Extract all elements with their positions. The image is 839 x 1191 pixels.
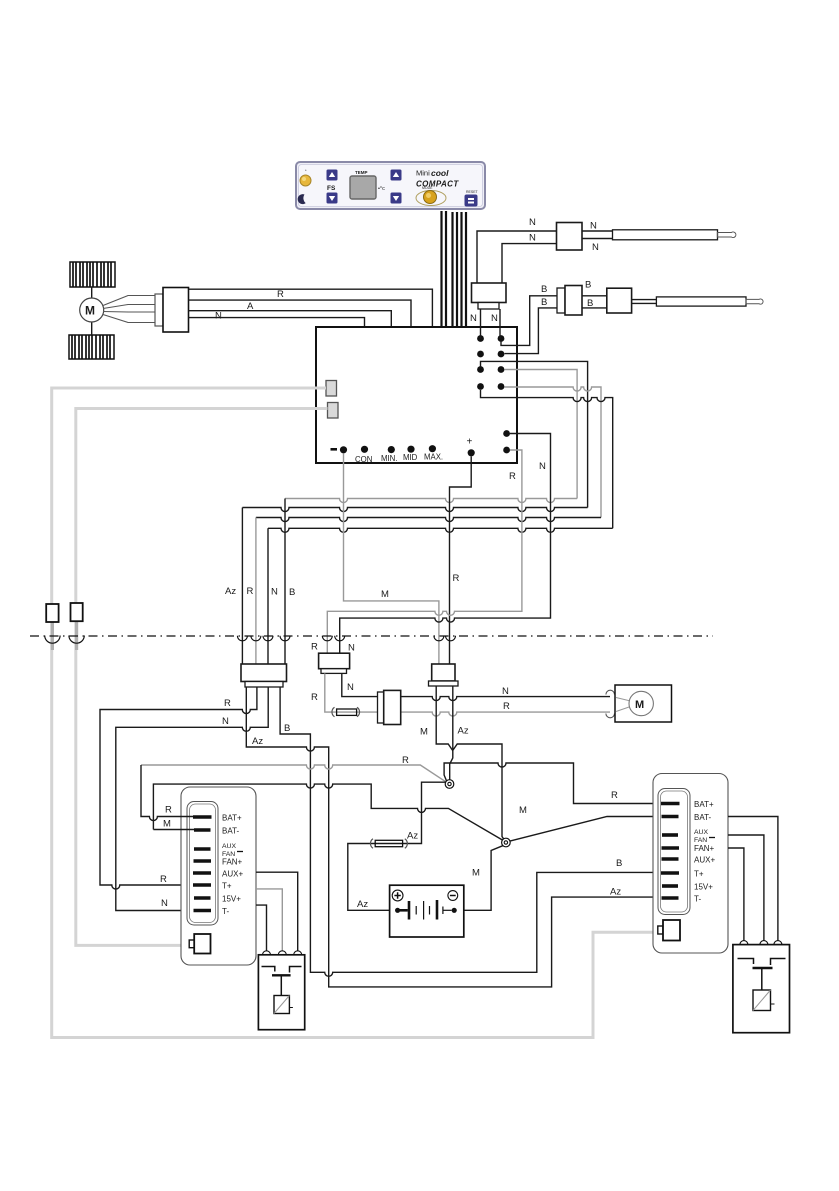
right block plug icon bbox=[658, 920, 680, 941]
svg-text:Az: Az bbox=[225, 586, 236, 597]
partition grommet left 1 bbox=[45, 636, 60, 644]
svg-text:N: N bbox=[347, 682, 354, 693]
control board A1 bbox=[316, 327, 517, 463]
svg-text:MAX.: MAX. bbox=[424, 453, 443, 462]
fan motor lead wires bbox=[103, 296, 155, 323]
bus row 3 bbox=[256, 518, 601, 522]
wire board row3R to bus row1 (gray) bbox=[504, 370, 577, 499]
svg-text:R: R bbox=[509, 471, 516, 482]
relay K1 coil bbox=[274, 996, 293, 1014]
wire cable from panel to board (6 conductors) bbox=[442, 211, 467, 327]
svg-text:Az: Az bbox=[357, 899, 368, 910]
wire N sensor lower bbox=[502, 244, 557, 283]
panel power LED button bbox=[300, 168, 311, 186]
svg-text:FAN+: FAN+ bbox=[694, 844, 715, 853]
connector X9 (mid M Az) bbox=[429, 664, 459, 686]
svg-text:N: N bbox=[529, 233, 536, 244]
svg-text:B: B bbox=[585, 280, 591, 291]
svg-text:CON: CON bbox=[355, 455, 372, 464]
svg-text:N: N bbox=[271, 587, 278, 598]
wire N fan to board MIN bbox=[189, 311, 392, 446]
junction J2 (stud) bbox=[502, 838, 511, 847]
gray frame wire 1 (board socket1 to right plug) bbox=[52, 388, 658, 1038]
wire Az drop to bulkhead bbox=[241, 508, 243, 665]
relay K1 box bbox=[258, 955, 304, 1030]
svg-text:MIN.: MIN. bbox=[381, 454, 397, 463]
svg-text:15V+: 15V+ bbox=[222, 895, 241, 904]
svg-text:N: N bbox=[529, 217, 536, 228]
battery cell symbol bbox=[395, 900, 457, 920]
bus row 2 bbox=[242, 508, 587, 512]
condenser fan motor M2 box bbox=[615, 685, 672, 722]
left block labels bbox=[222, 814, 243, 917]
svg-text:BAT+: BAT+ bbox=[694, 800, 714, 809]
left block plug icon bbox=[189, 934, 210, 954]
label minus bbox=[331, 448, 338, 451]
svg-text:AUX: AUX bbox=[694, 829, 708, 836]
svg-text:M: M bbox=[163, 819, 171, 830]
svg-text:R: R bbox=[503, 701, 510, 712]
svg-text:N: N bbox=[590, 221, 597, 232]
wire Az from X9 to junction J1 bbox=[450, 686, 453, 780]
relay K1 contact symbol bbox=[262, 967, 302, 996]
probe N tail loop bbox=[717, 232, 735, 238]
evaporator fan motor M1 bbox=[80, 298, 104, 322]
bulkhead connector 2 bbox=[71, 603, 83, 621]
svg-text:R: R bbox=[247, 586, 254, 597]
board terminal MIN dot bbox=[388, 446, 395, 453]
svg-text:TEMP: TEMP bbox=[355, 170, 368, 175]
wire board Rout (gray) to compressor R bbox=[327, 450, 522, 653]
right block terminal bars bbox=[661, 804, 680, 899]
svg-text:Az: Az bbox=[252, 736, 263, 747]
temperature probe B2 (B) bbox=[656, 297, 746, 306]
svg-text:N: N bbox=[539, 461, 546, 472]
svg-text:M: M bbox=[381, 589, 389, 600]
wire right block FAN+ to relay K2 bbox=[728, 848, 744, 941]
partition grommet Az mid bbox=[446, 636, 456, 641]
wire board row4R to bus row3 (gray) bbox=[504, 387, 601, 518]
fan motor shaft bbox=[91, 287, 93, 335]
svg-text:R: R bbox=[311, 642, 318, 653]
connector X3 (to board, N N) bbox=[472, 283, 507, 309]
battery plus symbol bbox=[392, 890, 403, 901]
partition grommet M mid bbox=[434, 636, 444, 641]
wire board Nout to compressor N bbox=[340, 434, 551, 654]
svg-text:15V+: 15V+ bbox=[694, 883, 713, 892]
wires X5 to probe bbox=[632, 300, 657, 304]
svg-text:N: N bbox=[222, 716, 229, 727]
wire minus terminal to M drop (gray) bbox=[344, 453, 439, 664]
svg-text:R: R bbox=[160, 874, 167, 885]
connector X7 (4-pole, condenser side) bbox=[241, 664, 287, 687]
partition grommet B bbox=[280, 636, 290, 641]
svg-text:B: B bbox=[289, 587, 295, 598]
panel temp down button bbox=[391, 193, 402, 204]
svg-text:M: M bbox=[85, 304, 95, 318]
wire fan to board CON bbox=[189, 318, 365, 446]
wire R gray to junction J1 bbox=[141, 765, 446, 782]
svg-text:BAT-: BAT- bbox=[222, 827, 240, 836]
svg-text:M: M bbox=[420, 727, 428, 738]
panel Mini cool logo bbox=[416, 168, 449, 178]
svg-text:N: N bbox=[470, 313, 477, 324]
relay K1 hooks bbox=[263, 951, 302, 955]
left terminal block (control unit) bbox=[181, 787, 256, 965]
svg-text:R: R bbox=[453, 573, 460, 584]
svg-text:FAN: FAN bbox=[694, 837, 707, 844]
board terminal MAX dot bbox=[429, 445, 436, 452]
wire Az connector X7 to right block T- bbox=[246, 687, 661, 987]
svg-text:R: R bbox=[611, 790, 618, 801]
connector X2 (N sensor) bbox=[557, 223, 583, 251]
wire M from X9 to junction J2 bbox=[436, 686, 505, 841]
fan connector main shell X1 bbox=[163, 288, 189, 333]
board right-edge dot upper (N out) bbox=[503, 430, 510, 437]
right block labels bbox=[694, 800, 715, 904]
wire left block lower to relay K1 bbox=[256, 905, 267, 950]
board terminal plus dot bbox=[468, 449, 475, 456]
relay K2 coil bbox=[753, 990, 775, 1011]
fuse F2 bbox=[370, 839, 407, 849]
bulkhead connector stub 1 bbox=[51, 620, 54, 650]
evaporator fan upper heat-exchanger (hatched) bbox=[70, 262, 115, 287]
probe B tail loop bbox=[746, 299, 763, 304]
svg-text:R: R bbox=[311, 692, 318, 703]
M2 internal leads bbox=[616, 698, 631, 712]
svg-text:Az: Az bbox=[458, 726, 469, 737]
wires connector to probe N bbox=[582, 231, 613, 239]
svg-text:cool: cool bbox=[431, 168, 449, 178]
wire R connector X7 to left block T+ bbox=[100, 687, 257, 889]
svg-text:FS: FS bbox=[327, 185, 336, 192]
svg-text:M: M bbox=[519, 805, 527, 816]
svg-text:AUX+: AUX+ bbox=[222, 870, 243, 879]
battery G1 bbox=[390, 885, 464, 937]
wire N connector X7 to left block T- bbox=[116, 687, 268, 911]
wire M to left block BAT- bbox=[153, 829, 194, 831]
svg-text:N: N bbox=[502, 686, 509, 697]
partition grommet R compressor bbox=[322, 636, 332, 641]
svg-text:T+: T+ bbox=[694, 870, 704, 879]
junction J1 (stud) bbox=[445, 780, 454, 789]
wire board row3L to bus row2 bbox=[481, 361, 588, 507]
svg-text:T-: T- bbox=[222, 907, 229, 916]
svg-text:R: R bbox=[277, 289, 284, 300]
wire M left block BAT- run bbox=[153, 784, 502, 840]
evaporator fan lower heat-exchanger (hatched) bbox=[69, 335, 114, 359]
wire R gray to left block BAT+ bbox=[141, 765, 193, 821]
partition grommet Az bbox=[237, 636, 247, 641]
svg-text:BAT-: BAT- bbox=[694, 813, 712, 822]
svg-text:+: + bbox=[467, 437, 473, 448]
svg-text:M: M bbox=[472, 868, 480, 879]
relay K2 box bbox=[733, 945, 790, 1033]
svg-text:B: B bbox=[541, 297, 547, 308]
wire plus terminal R drop bbox=[450, 456, 472, 664]
fuse F1 bbox=[332, 707, 360, 717]
wire small jog from dot row1R bbox=[501, 341, 510, 346]
partition grommet N compressor bbox=[335, 636, 345, 641]
panel moon icon bbox=[298, 194, 306, 204]
svg-text:R: R bbox=[165, 805, 172, 816]
relay K2 contact symbol bbox=[738, 959, 786, 991]
board connector socket 2 (gray) bbox=[328, 403, 339, 419]
panel LCD display bbox=[350, 176, 376, 199]
svg-text:T-: T- bbox=[694, 895, 701, 904]
svg-text:B: B bbox=[616, 858, 622, 869]
wire right block BAT- to relay K2 bbox=[728, 817, 778, 941]
svg-text:N: N bbox=[491, 313, 498, 324]
board right-edge dot lower (R out) bbox=[503, 447, 510, 454]
bus row 1 (gray) bbox=[285, 499, 577, 503]
bulkhead connector 1 bbox=[46, 604, 58, 622]
svg-text:Az: Az bbox=[407, 831, 418, 842]
wire A fan to board MID bbox=[189, 300, 412, 446]
svg-text:N: N bbox=[348, 643, 355, 654]
bulkhead connector stub 2 bbox=[75, 620, 78, 650]
relay K2 hooks bbox=[740, 941, 782, 945]
wire B drop to bulkhead bbox=[284, 499, 286, 665]
svg-text:R: R bbox=[224, 698, 231, 709]
wire R fan to board MAX bbox=[189, 289, 433, 446]
board connector socket 1 (gray) bbox=[326, 381, 337, 397]
wire right block AUXFAN to relay K2 bbox=[728, 835, 764, 941]
panel right button bbox=[465, 190, 479, 207]
svg-text:N: N bbox=[592, 242, 599, 253]
svg-text:FAN+: FAN+ bbox=[222, 858, 243, 867]
svg-text:BAT+: BAT+ bbox=[222, 814, 242, 823]
svg-text:Az: Az bbox=[610, 887, 621, 898]
wire Az junction J1 through fuse F2 to battery plus bbox=[348, 782, 446, 910]
connector X4 (B sensor inner) bbox=[557, 286, 582, 316]
svg-text:AUX: AUX bbox=[222, 843, 236, 850]
svg-text:MODE: MODE bbox=[422, 186, 433, 190]
connector X5 (B sensor outer) bbox=[607, 288, 632, 313]
svg-text:•°c: •°c bbox=[378, 186, 385, 192]
connector X10 (inline block) bbox=[378, 690, 401, 724]
bus row 4 bbox=[268, 528, 613, 532]
board terminal MID dot bbox=[407, 446, 414, 453]
svg-text:MID: MID bbox=[403, 453, 418, 462]
left block AUX/FAN minus dash bbox=[237, 851, 243, 853]
svg-text:B: B bbox=[541, 284, 547, 295]
control panel U1 (Mini cool COMPACT) bbox=[296, 162, 485, 209]
board bottom terminal minus dot bbox=[340, 446, 347, 453]
panel FS up button bbox=[327, 170, 338, 181]
temperature probe B1 (N) bbox=[613, 230, 718, 240]
fan connector small shell bbox=[155, 294, 163, 326]
svg-text:AUX+: AUX+ bbox=[694, 856, 715, 865]
wire N connector pins to board dots bbox=[481, 309, 501, 339]
wire left block AUX+ to relay K1 bbox=[256, 872, 298, 950]
svg-text:Mini: Mini bbox=[416, 169, 430, 178]
panel knob bbox=[416, 186, 446, 206]
board terminal CON dot bbox=[361, 446, 368, 453]
wire N drop to bulkhead bbox=[267, 528, 269, 664]
svg-text:RESET: RESET bbox=[466, 190, 479, 194]
condenser fan motor box wire hooks bbox=[606, 690, 615, 694]
wire M junction J2 to battery minus bbox=[457, 846, 503, 911]
wire N X8 to condenser fan motor bbox=[342, 673, 610, 700]
wire N sensor upper bbox=[477, 231, 557, 283]
partition dash-dot line bbox=[30, 635, 713, 637]
condenser fan motor M2 bbox=[629, 691, 653, 715]
wire R gray X8 through fuse to condenser fan motor bbox=[325, 673, 610, 716]
wire B upper elbow from board bbox=[510, 296, 557, 346]
connector X8 (compressor R N) bbox=[319, 653, 350, 673]
terminal dots top-right rows bbox=[477, 335, 504, 390]
svg-text:B: B bbox=[284, 723, 290, 734]
partition grommet left 2 bbox=[69, 636, 84, 644]
wire R drop to bulkhead (gray) bbox=[255, 518, 257, 665]
wires X4 to X5 bbox=[582, 296, 607, 308]
partition grommet N bbox=[263, 636, 273, 641]
svg-text:M: M bbox=[635, 699, 644, 711]
svg-text:T+: T+ bbox=[222, 882, 232, 891]
svg-text:N: N bbox=[161, 898, 168, 909]
gray frame wire 2 (board socket2 to left plug) bbox=[76, 409, 328, 946]
wire M junction J2 to right block BAT- bbox=[510, 817, 661, 842]
svg-text:N: N bbox=[215, 311, 222, 322]
battery minus symbol bbox=[448, 891, 458, 901]
left block terminal bars bbox=[193, 817, 212, 911]
wire B lower elbow from board bbox=[504, 308, 557, 354]
right terminal block (condenser unit) bbox=[653, 774, 728, 954]
partition grommet R bbox=[251, 636, 261, 641]
panel FS down button bbox=[327, 193, 338, 204]
wire board row4L to bus row4 bbox=[481, 390, 613, 528]
panel temp up button bbox=[391, 170, 402, 181]
wire B connector X7 to right block T+ bbox=[280, 687, 661, 976]
svg-text:R: R bbox=[402, 755, 409, 766]
right block AUX/FAN minus dash bbox=[709, 837, 715, 839]
wire left block mid to relay K1 (gray) bbox=[256, 889, 282, 951]
wire R junction J1 to right block BAT+ bbox=[444, 763, 661, 804]
